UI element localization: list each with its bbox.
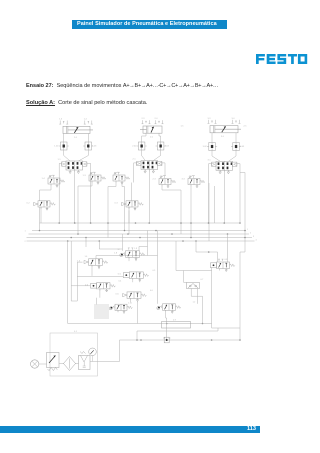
shut-off hand valve 0.1a (47, 353, 60, 371)
wire 1.6 ports down (92, 267, 99, 276)
wire shuttle out down (191, 289, 202, 324)
filter with separator (59, 357, 79, 371)
wire limit 3.3 drop (190, 187, 192, 238)
wire limit 1.4 down (40, 186, 52, 190)
wire flow 3.02 to valve 3.1 (212, 151, 220, 162)
valve 1.1 (5/2) (58, 159, 87, 173)
flow control 1.02 (54, 142, 69, 150)
wire limit 2.3 loop left (129, 183, 132, 235)
wire shuttle loop top (176, 270, 212, 272)
cascade bus line 3 (27, 237, 253, 239)
supply tee fitting (163, 337, 171, 343)
wire unit output (90, 361, 98, 363)
cylinder 2.0 (B) (140, 118, 164, 133)
cascade bus line 1 (32, 230, 246, 232)
wire bottom line left (68, 323, 141, 325)
wire flow 1.03 to valve 1.1 (78, 150, 88, 161)
valve 0.5 (118, 272, 149, 282)
wire flow 3.03 to valve 3.1 (229, 151, 237, 162)
wire supply valve 3.1 (223, 173, 225, 223)
limit valve 2.3 (b0) (153, 176, 176, 188)
wire pilot 3.1 right (237, 164, 240, 223)
wire V7 exhaust link (166, 318, 168, 340)
pressure regulator (79, 352, 91, 370)
wire supply valve 2.1 (148, 172, 150, 223)
heading line 2 (26, 100, 316, 106)
wire cylinder C right port (235, 133, 237, 143)
wire 0.6 ports (131, 300, 138, 302)
wire limit 3.3 loop right (208, 183, 210, 241)
limit valve 1.4 (a1) (42, 175, 65, 187)
wire limit 2.4 drop (108, 183, 116, 238)
cylinder 1.0 (A) (59, 119, 93, 134)
wire limit 1.3 drop (78, 183, 92, 234)
footer page bar (0, 426, 260, 433)
cylinder 3.0 (C) (208, 118, 242, 133)
wire bus top to 1.8 roller (122, 234, 124, 251)
wire 1.6 pilot link (77, 261, 82, 263)
wire cylinder A right port (87, 134, 89, 143)
wire pilot 3.1 left (209, 164, 212, 223)
hatch block (label area) (94, 305, 109, 319)
wire 0.8 pilot drop (211, 267, 213, 328)
wire pilot 2.1 left (134, 163, 137, 183)
header bar (72, 20, 227, 29)
valve 1.12 (roller) (157, 304, 181, 314)
wire 0.8 ports (220, 269, 227, 271)
heading line 1 (26, 83, 316, 89)
wire line y331 (137, 328, 218, 340)
wire 0.5 ports (133, 280, 140, 282)
cascade bus line 2 (29, 233, 250, 235)
wire 1.8 ports (129, 247, 148, 262)
wire bus drop x86 (85, 238, 87, 248)
cascade valve 0.3 (115, 201, 144, 210)
wire flow 2.02 to valve 2.1 (142, 150, 146, 161)
wire bus to x227.5 (227, 234, 229, 262)
junction dot feed 0.8 (208, 251, 210, 253)
valve 2.1 (5/2) (133, 159, 162, 173)
valve 1.6 (77, 259, 108, 269)
limit valve 2.4 (b1) (113, 172, 130, 184)
wire 0.4 out down (95, 298, 97, 305)
flow control 2.03 (156, 142, 170, 150)
valve 1.8 label ticks (128, 248, 133, 250)
wire shuttle left in (184, 271, 187, 283)
cascade valve 0.2 (27, 201, 56, 210)
wire cascade 0.2 ports (41, 207, 47, 223)
valve 0.8 (211, 262, 235, 272)
wire y323 V6 drop (137, 302, 139, 324)
valve 3.1 (5/2) (208, 160, 237, 174)
valve 0.4 (85, 283, 115, 292)
wire flow 1.02 to valve 1.1 (64, 150, 70, 161)
flow control 2.02 (132, 142, 147, 150)
wire 1.6 out up (96, 256, 158, 259)
wire 0.4 ports (100, 289, 107, 298)
wire 1.8 top link (99, 248, 122, 250)
pressure gauge (89, 348, 97, 361)
wire bus to x176 (175, 241, 177, 271)
service unit frame 0.1 (50, 333, 98, 376)
wire cylinder A left port (63, 134, 65, 143)
valve 1.8 (114, 251, 145, 261)
wire 0.4 pilot feed (71, 285, 90, 287)
wire cascade 0.3 ports (129, 195, 135, 223)
wire x240 vertical (239, 252, 241, 340)
wire right U loop (212, 327, 240, 329)
limit valve 3.3 (c0) (182, 176, 205, 188)
wire 0.5 pilot feed (77, 276, 123, 278)
valve 1.10 (109, 304, 132, 313)
flow control 3.02 (203, 143, 218, 151)
compressor source (31, 360, 47, 368)
valve 0.8 label ticks (218, 259, 223, 261)
component box 0.9 (162, 322, 191, 329)
wire supply valve 1.1 (73, 172, 75, 223)
wire cylinder B left port (142, 133, 146, 142)
wire 1.12 ports (166, 310, 173, 318)
wire pilot riser x77.3 (76, 262, 78, 301)
wire pilot 1.1 right (87, 163, 91, 223)
wire bus to x157.5 (157, 231, 159, 304)
wire shuttle right in (198, 289, 200, 304)
bus junction dots (39, 230, 41, 232)
flow control 1.03 (83, 142, 97, 150)
flow control 3.03 (231, 143, 245, 151)
wire y252 link (240, 251, 245, 253)
wire bus to x147.5 (147, 231, 149, 256)
wire flow 2.03 to valve 2.1 (153, 150, 160, 161)
wire bottom line y323 (141, 323, 212, 325)
wire pilot loop x71.2 (71, 241, 77, 301)
wire cylinder C left port (211, 133, 213, 143)
limit valve 1.3 (a0) (83, 172, 106, 184)
wire main supply line (120, 339, 241, 341)
wire supply drop x67.7 (67, 241, 69, 324)
wire feed valve 0.8 (196, 241, 218, 262)
wire pilot 2.1 right (162, 163, 165, 176)
wire unit to main (98, 340, 120, 362)
shuttle valve 0.7 (187, 283, 200, 289)
valve 0.6 (116, 292, 147, 302)
supply manifold line (40, 222, 241, 224)
wire limit 2.3 drop (162, 187, 181, 235)
wire pilot 1.1 left (59, 163, 61, 223)
wire cylinder B right port (159, 133, 161, 142)
wire group C drop (215, 173, 246, 253)
wire bus to valve 1.8 (98, 241, 100, 249)
wire limit 1.4 loop (39, 190, 41, 231)
wire limit 2.4 right drop (122, 183, 125, 231)
cascade bus line 4 (27, 240, 255, 242)
